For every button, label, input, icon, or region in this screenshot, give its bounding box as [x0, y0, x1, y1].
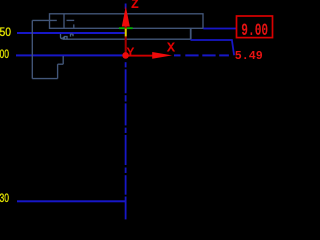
insert left prong [61, 34, 63, 39]
tool holder outline (gray steel blue) [32, 14, 203, 79]
wire: dashed horizontal centerline right of X arrow [174, 54, 229, 56]
holder clamp tick left [32, 19, 57, 21]
left bracket step horizontal [58, 63, 64, 65]
holder divider vertical [63, 14, 65, 28]
wire: blue dimension line C (level 30) [17, 200, 127, 202]
svg-text:Z: Z [131, 0, 139, 13]
svg-text:00: 00 [0, 47, 9, 61]
node: X axis arrowhead [152, 52, 172, 59]
left bracket vertical [31, 20, 33, 78]
yellow tick on Z axis [125, 29, 127, 37]
holder nub vertical [73, 24, 75, 28]
holder clamp tick right [67, 19, 75, 21]
node: Z axis arrowhead [122, 6, 130, 26]
lower band bottom edge [63, 38, 191, 40]
svg-text:30: 30 [0, 191, 9, 205]
leader line 1 (blue) to 9.00 box [203, 28, 236, 30]
green tick on holder bottom edge [119, 27, 133, 29]
left bracket bottom [32, 78, 57, 80]
left bracket right vertical [57, 64, 59, 78]
lower band right edge [190, 28, 192, 39]
svg-text:50: 50 [0, 25, 11, 39]
wire: blue dimension line A (level 50) [17, 32, 125, 34]
readout box 9.00 [237, 16, 273, 38]
svg-text:9.00: 9.00 [241, 22, 268, 41]
node: Z axis red line [125, 22, 127, 55]
holder top rectangle [50, 14, 204, 28]
insert right tab [71, 34, 74, 37]
node: X axis red line [126, 55, 153, 57]
node: origin dot [122, 52, 129, 59]
svg-text:5.49: 5.49 [235, 49, 263, 63]
left bracket step vertical [62, 56, 64, 64]
leader line 2 (blue) to 5.49 [191, 40, 235, 55]
insert middle notch [63, 37, 64, 38]
svg-text:X: X [167, 40, 176, 56]
wire: dashed vertical centerline below origin [125, 4, 127, 220]
wire: blue centerline B left of origin (level 00) [16, 54, 126, 56]
